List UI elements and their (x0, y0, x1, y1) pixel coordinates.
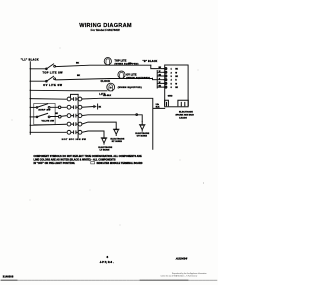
svg-text:BK: BK (77, 75, 80, 77)
switch top lite SW1 (46, 68, 48, 70)
svg-text:1: 1 (171, 69, 173, 71)
spark gap arrow (93, 105, 96, 108)
module pin 2 (164, 71, 166, 73)
svg-text:INDICATES MODULE TERMINAL BOAR: INDICATES MODULE TERMINAL BOARD (97, 162, 143, 165)
wire row8 from bus (30, 131, 66, 133)
svg-text:IN "OFF" OR PRE-LIGHT POSITION: IN "OFF" OR PRE-LIGHT POSITION. (34, 163, 76, 165)
svg-text:8: 8 (107, 255, 109, 259)
connector pair row5 socket (76, 131, 78, 134)
svg-text:LINE COLORS ARE AS NOTED (BLAC: LINE COLORS ARE AS NOTED (BLACK & WHITE)… (34, 158, 116, 161)
electrode left burner E3 (101, 137, 107, 144)
module HV lead bracket 2 (178, 100, 188, 105)
svg-text:OV LITE: OV LITE (126, 74, 137, 76)
svg-text:2: 2 (171, 72, 172, 74)
svg-text:"B" BLACK: "B" BLACK (143, 60, 158, 63)
wire row7 to right electrode (82, 122, 116, 128)
svg-text:For Model F43S783W: For Model F43S783W (91, 28, 120, 32)
svg-text:VALVE SW: VALVE SW (42, 120, 55, 123)
svg-text:BK: BK (55, 113, 58, 115)
svg-text:"L1" BLACK: "L1" BLACK (21, 58, 39, 61)
lamp top lite L1 (104, 58, 111, 65)
svg-text:(WHEN EQUIPPED): (WHEN EQUIPPED) (115, 63, 139, 65)
box burner switch group (34, 103, 55, 124)
junction dot ov lead (136, 114, 138, 116)
lamp clock L3 (107, 83, 115, 91)
scan speckles (12, 48, 204, 226)
svg-text:LT BURN: LT BURN (100, 149, 110, 151)
wire switch1 from bus (30, 106, 36, 108)
svg-text:SPARK IGN MOD: SPARK IGN MOD (176, 114, 195, 117)
svg-text:COMPONENT SYMBOLS DO NOT REFLE: COMPONENT SYMBOLS DO NOT REFLECT TRUE CO… (34, 155, 143, 158)
svg-text:3: 3 (171, 76, 172, 78)
svg-text:A32434: A32434 (175, 257, 188, 261)
svg-text:W: W (175, 72, 177, 74)
junction circle sw2 out (59, 115, 62, 118)
svg-text:TOP LITE SW: TOP LITE SW (43, 72, 64, 75)
svg-text:4: 4 (171, 79, 173, 82)
switch valve SW4 (36, 116, 38, 118)
svg-text:6: 6 (171, 87, 172, 89)
svg-text:HOT SFC IGN SW: HOT SFC IGN SW (62, 139, 87, 141)
svg-text:BK: BK (175, 76, 178, 78)
electrode right burner E2 (113, 128, 119, 135)
wire harness jog (71, 94, 79, 97)
svg-text:W: W (175, 83, 177, 85)
bottom rule (1, 279, 217, 281)
wire row6 to oven electrode (82, 115, 142, 122)
wire row5 exit with spark gap (82, 106, 93, 109)
spark module U1 (165, 65, 188, 107)
wire switch2 to connector row3 (50, 115, 66, 118)
svg-text:GRD: GRD (168, 95, 173, 97)
wire row3 clock (30, 89, 107, 92)
symbol module terminal key (91, 162, 95, 164)
wire switch1 to connector row2 (50, 106, 66, 108)
module pin 6 (164, 86, 166, 88)
svg-text:(WHEN EQUIPPED): (WHEN EQUIPPED) (118, 87, 142, 89)
module pin 5 (164, 82, 166, 84)
wire row1 from bus (30, 68, 46, 70)
module HV lead bracket 1 (165, 100, 169, 105)
connector pair row2 socket (76, 106, 78, 109)
svg-text:OV LITE SW: OV LITE SW (43, 84, 62, 87)
wire stubs to pins (157, 71, 165, 89)
wire switch2 from bus (30, 116, 36, 118)
connector pair row5 plug (67, 130, 71, 134)
svg-text:ELECTRODE: ELECTRODE (179, 111, 193, 113)
wire row1 right segment (56, 65, 151, 66)
wire row8 to left electrode (82, 131, 104, 137)
svg-text:BK: BK (175, 69, 178, 71)
lamp oven lite L2 (118, 71, 125, 78)
wire row2 right segment (56, 79, 153, 80)
svg-text:BK: BK (175, 87, 178, 89)
wire row7 from bus (30, 124, 66, 125)
junction circle sw1 out (58, 106, 61, 109)
connector pair row2 plug (67, 105, 71, 109)
connector pair row3 plug (67, 114, 71, 118)
module pin 3 (164, 75, 166, 77)
svg-text:SURF SW: SURF SW (38, 110, 51, 112)
svg-text:LEADS: LEADS (179, 117, 187, 120)
switch surface SW3 (36, 107, 38, 109)
svg-text:BK: BK (99, 106, 102, 108)
wire row1 to module pin1 (151, 65, 165, 68)
connector pair row1 socket (76, 98, 78, 101)
module pin 1 (164, 68, 166, 70)
svg-text:BK: BK (76, 63, 79, 65)
connector pair row4 plug (67, 122, 71, 126)
wire row4 to module area (82, 98, 165, 149)
switch oven lite SW2 (46, 80, 48, 82)
wire row2 from bus (30, 80, 46, 82)
wire row2 to module pin4 (153, 78, 165, 80)
svg-text:5: 5 (171, 83, 173, 85)
svg-text:OV BURN: OV BURN (137, 135, 148, 137)
wire harness bus (77, 94, 79, 138)
svg-text:3149308: 3149308 (3, 275, 14, 278)
module pin 4 (164, 79, 166, 81)
svg-text:(WHEN EQUIPPED): (WHEN EQUIPPED) (126, 77, 150, 79)
wire L1 bus (29, 62, 31, 135)
svg-text:R: R (175, 80, 177, 82)
connector pair row4 socket (76, 123, 78, 126)
connector pair row1 plug (67, 97, 71, 101)
svg-text:Center for use of SGA Members: Center for use of SGA Members - T. Hart … (161, 274, 198, 277)
svg-text:TOP LITE: TOP LITE (115, 60, 127, 62)
wire row4 from bus (30, 98, 66, 101)
svg-text:J-P P, R-8 .: J-P P, R-8 . (100, 262, 114, 264)
svg-text:RT BURN: RT BURN (112, 141, 123, 143)
svg-text:L1b BLK: L1b BLK (103, 95, 112, 97)
connector pair row3 socket (76, 114, 78, 117)
svg-text:CLOCK: CLOCK (101, 81, 111, 83)
electrode oven burner E1 (139, 121, 145, 131)
